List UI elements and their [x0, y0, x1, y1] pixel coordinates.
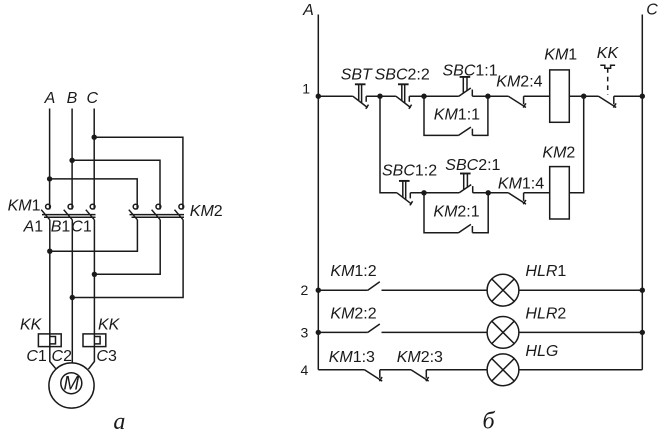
svg-text:KM2:1: KM2:1: [433, 203, 479, 220]
wire C1 down to thermal element: [93, 220, 95, 334]
node junction rail C row 3: [640, 330, 645, 335]
svg-text:C1: C1: [71, 219, 92, 236]
pushbutton SBC1:1 (NO): [459, 77, 473, 96]
svg-text:KM2:2: KM2:2: [330, 306, 376, 323]
svg-text:HLR2: HLR2: [525, 306, 566, 323]
svg-text:KM2: KM2: [190, 203, 223, 220]
node junction rail C row 1: [640, 94, 645, 99]
svg-text:SBT: SBT: [341, 66, 373, 83]
node f junction: [486, 190, 491, 195]
contact KM2:1 (NO): [459, 224, 473, 232]
KM2 linkage bar: [130, 215, 185, 218]
KM1 linkage bar: [42, 215, 96, 218]
node b junction: [421, 94, 426, 99]
svg-text:2: 2: [301, 282, 309, 298]
wire SBC2:2 to SBC1:1: [409, 95, 459, 97]
wire left rail A: [317, 15, 319, 370]
svg-text:KM1: KM1: [544, 46, 577, 63]
contactor KM2 pole 3: [175, 204, 184, 220]
node junction rail C row 2: [640, 288, 645, 293]
contact KM1:3 (NC): [365, 370, 383, 381]
svg-text:KM2:4: KM2:4: [496, 73, 542, 90]
contactor KM2 pole 1: [129, 204, 138, 220]
svg-text:HLG: HLG: [525, 343, 558, 360]
node a junction: [377, 94, 382, 99]
svg-text:SBC2:1: SBC2:1: [445, 157, 500, 174]
contact KM2:3 (NC): [411, 370, 429, 381]
node junction rail A row 1: [316, 94, 321, 99]
wire KM2 pole 3 output to B1: [72, 220, 183, 298]
node c junction: [485, 94, 490, 99]
wire row3 rail to KM2:2: [318, 331, 368, 333]
contact KM1:2 (NO): [368, 282, 380, 290]
svg-text:KM1:1: KM1:1: [434, 106, 480, 123]
wire row1 rail to SBT: [318, 95, 353, 97]
svg-text:SBC1:2: SBC1:2: [382, 163, 437, 180]
svg-text:KM1:4: KM1:4: [498, 175, 544, 192]
lamp HLG: [487, 354, 519, 386]
contactor KM2 pole 2: [152, 204, 161, 220]
wire phase A vertical: [49, 109, 51, 210]
lamp HLR1: [487, 274, 519, 306]
node junction rail A row 3: [316, 330, 321, 335]
svg-text:HLR1: HLR1: [525, 263, 566, 280]
wire KM2:4 to coil KM1: [524, 95, 550, 97]
wire SBC1:2 to SBC2:1: [410, 192, 459, 194]
svg-text:KK: KK: [597, 45, 620, 62]
contact KM1:4 (NC): [508, 193, 526, 204]
wire SBC1:1 to KM2:4: [472, 95, 508, 97]
node junction on B1: [70, 295, 75, 300]
svg-text:C: C: [87, 90, 99, 107]
wire KM2 pole 1 output to A1: [50, 220, 138, 251]
contactor KM1 pole 2: [64, 204, 73, 220]
svg-text:KM1: KM1: [8, 197, 41, 214]
svg-text:б: б: [483, 409, 496, 435]
wire bypass KM1:1 to node c: [472, 96, 488, 135]
wire B1 down to motor: [71, 220, 73, 363]
svg-text:1: 1: [302, 81, 310, 97]
svg-text:B1: B1: [51, 219, 71, 236]
svg-text:KK: KK: [20, 316, 43, 333]
wire bypass e down and across: [424, 193, 459, 233]
wire from KK right to motor: [88, 347, 94, 370]
wire row4 rail to KM1:3: [318, 369, 364, 371]
wire KM2:2 to lamp HLR2: [382, 331, 488, 333]
wire coil KM2 up to node d: [569, 96, 583, 193]
svg-text:M: M: [63, 374, 79, 395]
wire A crossover to KM2 pole 1: [50, 179, 138, 210]
svg-text:C3: C3: [96, 348, 117, 365]
svg-text:3: 3: [301, 324, 309, 340]
contact KM2:2 (NO): [368, 324, 380, 332]
svg-text:KM2: KM2: [542, 145, 575, 162]
wire C crossover to KM2 pole 3: [94, 137, 183, 209]
wire lamp HLG to rail C: [519, 369, 642, 371]
wire KM1:2 to lamp HLR1: [382, 289, 488, 291]
wire SBT to SBC2:2: [366, 95, 396, 97]
thermal element KK left: [38, 334, 61, 347]
wire KM2:3 to lamp HLG: [426, 369, 487, 371]
thermal element KK right: [83, 334, 106, 347]
contact KM2:4 (NC): [508, 96, 526, 107]
wire phase C vertical: [93, 109, 95, 210]
wire bypass b down and across: [424, 96, 459, 135]
wire A1 down to thermal element: [49, 220, 51, 334]
wire lamp HLR2 to rail C: [519, 331, 642, 333]
node junction rail A row 2: [316, 288, 321, 293]
pushbutton SBC2:2 (NC): [396, 84, 412, 109]
wire KM2 pole 2 output to C1: [94, 220, 160, 274]
node junction C to KM2: [92, 135, 97, 140]
pushbutton SBT (NC): [353, 84, 369, 109]
contact KM1:1 (NO): [459, 127, 473, 135]
svg-text:KK: KK: [98, 316, 121, 333]
wire KM1:3 to KM2:3: [380, 369, 411, 371]
pushbutton SBC2:1 (NO): [459, 174, 473, 193]
node d junction: [581, 94, 586, 99]
wire right rail C: [641, 15, 643, 370]
node e junction: [421, 190, 426, 195]
thermal contact KK (NC): [599, 65, 617, 107]
wire from KK left to motor: [50, 347, 56, 370]
wire row2 rail to KM1:2: [318, 289, 368, 291]
wire lamp HLR1 to rail C: [519, 289, 642, 291]
node junction A to KM2: [47, 176, 52, 181]
pushbutton SBC1:2 (NC): [397, 181, 413, 206]
node junction on A1: [47, 249, 52, 254]
svg-text:A: A: [302, 2, 314, 19]
wire coil KM1 to KK: [569, 95, 598, 97]
svg-text:KM1:3: KM1:3: [329, 349, 375, 366]
svg-text:KM2:3: KM2:3: [397, 349, 443, 366]
coil KM2: [550, 167, 570, 219]
svg-text:4: 4: [301, 362, 309, 378]
wire branch node a down to rung 2: [380, 96, 397, 193]
svg-text:KM1:2: KM1:2: [330, 263, 376, 280]
coil KM1: [550, 70, 570, 122]
node junction B to KM2: [69, 158, 74, 163]
lamp HLR2: [487, 317, 519, 349]
svg-text:C1: C1: [26, 348, 47, 365]
svg-text:A1: A1: [23, 219, 44, 236]
svg-text:SBC2:2: SBC2:2: [375, 66, 430, 83]
contactor KM1 pole 3: [86, 204, 95, 220]
wire KM1:4 to coil KM2: [524, 192, 550, 194]
svg-text:C: C: [646, 1, 658, 18]
motor M1: [49, 363, 94, 408]
wire B crossover to KM2 pole 2: [72, 160, 160, 209]
node junction on C1: [92, 272, 97, 277]
wire KK to rail C: [614, 95, 643, 97]
wire SBC2:1 to KM1:4: [473, 192, 509, 194]
wire bypass KM2:1 to node f: [472, 193, 488, 233]
svg-text:a: a: [113, 409, 125, 435]
svg-text:B: B: [67, 90, 78, 107]
contactor KM1 pole 1: [41, 204, 50, 220]
wire phase B vertical: [71, 109, 73, 210]
svg-text:A: A: [44, 90, 56, 107]
